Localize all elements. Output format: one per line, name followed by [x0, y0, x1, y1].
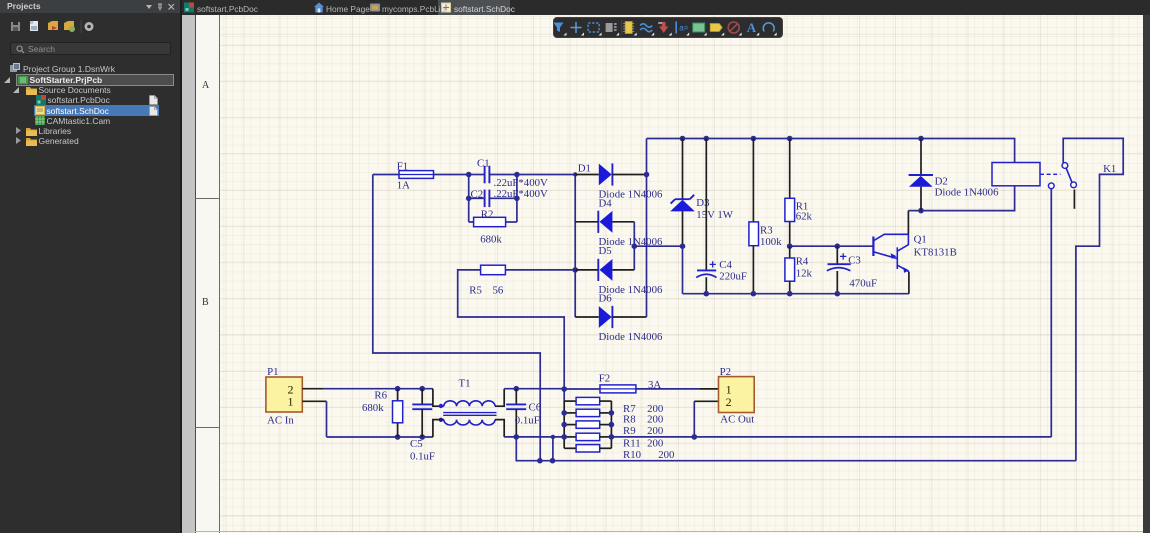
- svg-text:D6: D6: [599, 292, 613, 304]
- junction C5 bottom: [419, 434, 425, 440]
- pin R7 right lead: [600, 400, 612, 402]
- pin C4 bottom stem: [705, 277, 707, 294]
- wire cap bank to D1: [517, 174, 575, 176]
- pin D1 anode: [575, 174, 599, 176]
- pin R6 bottom stem: [397, 423, 399, 437]
- junction C3 top: [835, 243, 841, 249]
- svg-text:R6: R6: [374, 390, 387, 402]
- junction F1 drop: [537, 458, 543, 464]
- svg-text:A: A: [747, 20, 757, 35]
- pin C5 top stem: [421, 389, 423, 405]
- junction D1 cathode bus: [644, 172, 650, 178]
- wire to F2: [564, 388, 600, 390]
- pin D5 anode: [612, 269, 634, 271]
- svg-text:680k: 680k: [362, 402, 384, 414]
- pin R7 left lead: [564, 400, 576, 402]
- resistor R8: [576, 409, 600, 416]
- connector P2: [719, 377, 755, 413]
- svg-text:C5: C5: [410, 438, 423, 450]
- svg-text:0.1uF: 0.1uF: [515, 414, 540, 426]
- pin R3 top stem: [752, 139, 754, 222]
- wire R5 right lead: [505, 269, 575, 271]
- relay coil K1: [992, 163, 1040, 186]
- stack right bus: [610, 401, 612, 448]
- junction D4 D5 anodes: [632, 243, 638, 249]
- junction stack left 412.9: [561, 410, 567, 416]
- pin D4 anode: [612, 221, 634, 223]
- wire T1 to C6 bottom: [504, 436, 564, 438]
- project tree: [0, 62, 180, 64]
- pin C6 bottom stem: [515, 409, 517, 437]
- left Projects panel: [0, 0, 180, 533]
- splitter / gray workspace strip: [180, 0, 182, 533]
- pin P1-2: [302, 388, 324, 390]
- junction rail C4 bottom: [704, 291, 710, 297]
- transformer T1 core: [443, 413, 496, 416]
- pin R11 right lead: [600, 436, 612, 438]
- bottom subtle line: [195, 531, 1143, 532]
- wire K1 left contact drop: [1050, 189, 1052, 437]
- diode D4: [598, 211, 612, 233]
- pin D3 anode stem: [682, 211, 684, 246]
- transformer T1 secondary: [444, 420, 495, 425]
- pin R10 left lead: [564, 447, 576, 449]
- pin T1 secondary left: [433, 420, 444, 437]
- junction D2 bottom: [918, 208, 924, 214]
- svg-text:D5: D5: [599, 245, 612, 257]
- pin R11 left lead: [564, 436, 576, 438]
- floating schematic toolbar: [553, 17, 783, 38]
- junction stack right 412.9: [609, 410, 615, 416]
- pin T1 primary right: [495, 389, 504, 407]
- capacitor C1: [485, 166, 490, 184]
- wire F1 left drop: [373, 175, 540, 461]
- svg-text:C4: C4: [719, 259, 732, 271]
- svg-text:K1: K1: [1103, 163, 1116, 175]
- pin R8 right lead: [600, 412, 612, 414]
- sheet zone band: [196, 15, 220, 533]
- junction rail C4: [704, 136, 710, 142]
- junction rail D2: [918, 136, 924, 142]
- wire base node: [790, 245, 874, 247]
- svg-text:0.1uF: 0.1uF: [410, 450, 435, 462]
- pin D2 cathode stem: [920, 139, 922, 176]
- svg-text:AC Out: AC Out: [720, 414, 754, 426]
- pin R1 bottom stem: [789, 222, 791, 247]
- wire cap bank right vertical: [516, 175, 518, 223]
- transformer T1 primary: [444, 401, 495, 406]
- svg-text:P1: P1: [267, 366, 278, 378]
- resistor R3: [749, 222, 759, 246]
- wire diode block left vertical: [574, 175, 576, 318]
- wire cap bank left vertical: [468, 175, 470, 223]
- panel title bar: [0, 0, 180, 13]
- document tab bar: [182, 0, 1150, 15]
- svg-text:C6: C6: [529, 402, 542, 414]
- pin R1 top stem: [789, 139, 791, 199]
- junction D1 anode: [573, 172, 577, 176]
- wire T1 to C6 top: [504, 388, 564, 390]
- pin P2-1: [700, 388, 719, 390]
- contact pivot top: [1062, 163, 1068, 169]
- svg-text:680k: 680k: [480, 234, 502, 246]
- junction rail R3: [751, 136, 757, 142]
- svg-text:a=: a=: [679, 24, 688, 33]
- wire R11 row drop: [552, 437, 554, 461]
- svg-text:P2: P2: [720, 366, 731, 378]
- junction stack right 424.6: [609, 422, 615, 428]
- svg-text:R4: R4: [796, 256, 809, 268]
- search box: [10, 42, 171, 55]
- svg-text:56: 56: [493, 285, 504, 297]
- svg-text:.22uF*400V: .22uF*400V: [494, 177, 548, 189]
- capacitor C6: [506, 404, 526, 409]
- wire F1 to cap bank: [434, 174, 469, 176]
- pin P2-2: [694, 400, 718, 402]
- junction four way: [561, 386, 567, 392]
- wire R11 row to relay contact: [611, 436, 1051, 438]
- wire R2 left lead: [469, 221, 474, 223]
- wire AC line to F1: [373, 174, 399, 176]
- wire C6 bottom to lower bus: [516, 437, 1076, 461]
- pin C5 bottom stem: [421, 409, 423, 437]
- svg-text:D3: D3: [696, 197, 709, 209]
- junction D3 anode node: [680, 243, 686, 249]
- junction R5 D5 node: [572, 267, 578, 273]
- junction R6 bottom: [395, 434, 401, 440]
- resistor R2: [474, 217, 506, 226]
- junction C6 bottom: [514, 434, 520, 440]
- svg-text:15V 1W: 15V 1W: [696, 209, 733, 221]
- pin R6 top stem: [397, 389, 399, 401]
- capacitor C5: [412, 404, 432, 409]
- svg-text:C1: C1: [477, 158, 490, 170]
- pin C3 top stem: [836, 246, 838, 264]
- pin T1 primary left: [433, 389, 444, 407]
- junction C6 top: [514, 386, 520, 392]
- pin C4 top stem: [705, 139, 707, 271]
- connector P1: [266, 377, 302, 412]
- junction stack right 436.9: [609, 434, 615, 440]
- resistor R5: [481, 265, 506, 275]
- junction rail C3 bottom: [835, 291, 841, 297]
- wire emitter rail: [683, 293, 909, 295]
- right dark edge: [1143, 15, 1150, 533]
- T1 secondary polarity dot: [439, 418, 443, 422]
- wire positive rail: [647, 139, 1015, 163]
- svg-text:1: 1: [288, 395, 294, 409]
- svg-text:1A: 1A: [397, 180, 410, 192]
- stack left bus: [563, 401, 565, 448]
- T1 primary polarity dot: [439, 404, 443, 408]
- junction R11 row drop top: [551, 435, 555, 439]
- resistor R4: [785, 258, 795, 281]
- junction C1 right: [514, 172, 520, 178]
- svg-text:D1: D1: [578, 163, 591, 175]
- wire D4 D5 junction vertical: [633, 222, 635, 270]
- fuse F1: [399, 171, 434, 179]
- svg-text:220uF: 220uF: [719, 271, 747, 283]
- svg-text:Diode 1N4006: Diode 1N4006: [599, 331, 663, 343]
- svg-text:470uF: 470uF: [849, 278, 877, 290]
- wire D1 D6 cathode vertical: [646, 139, 648, 318]
- panel toolbar icons: [0, 18, 110, 36]
- pin D1 cathode: [612, 174, 646, 176]
- svg-text:C2: C2: [471, 188, 484, 200]
- svg-text:2: 2: [726, 395, 732, 409]
- contact pivot right: [1071, 182, 1077, 188]
- pin D5 cathode: [575, 269, 598, 271]
- link coil to contact: [1040, 173, 1061, 175]
- svg-text:200: 200: [647, 425, 663, 437]
- wire C1 right lead: [490, 174, 517, 176]
- resistor R10: [576, 445, 600, 452]
- svg-text:AC In: AC In: [267, 414, 294, 426]
- capacitor C2: [485, 190, 490, 208]
- resistor R9: [576, 421, 600, 428]
- junction rail D3: [680, 136, 686, 142]
- pin P1-1: [302, 400, 326, 402]
- junction P2 pin2 drop: [692, 434, 698, 440]
- resistor R11: [576, 433, 600, 440]
- svg-text:Diode 1N4006: Diode 1N4006: [935, 186, 999, 198]
- pin D6 anode: [575, 316, 599, 318]
- pin Q1 emitter: [908, 272, 910, 294]
- wire rectifier minus to D3: [634, 245, 682, 247]
- pin C3 bottom stem: [836, 271, 838, 294]
- capacitor C4: [696, 261, 716, 277]
- pin C6 top stem: [515, 389, 517, 405]
- gray workspace strip left of sheet: [182, 15, 196, 533]
- wire C1 left lead: [469, 174, 485, 176]
- contact pivot left: [1048, 183, 1054, 189]
- svg-text:200: 200: [647, 437, 663, 449]
- pin R9 left lead: [564, 424, 576, 426]
- svg-text:R2: R2: [481, 209, 494, 221]
- pin R10 right lead: [600, 447, 612, 449]
- capacitor C3: [827, 253, 851, 271]
- svg-text:R5: R5: [469, 285, 482, 297]
- svg-text:R8: R8: [623, 414, 636, 426]
- svg-text:62k: 62k: [796, 211, 813, 223]
- svg-text:R11: R11: [623, 437, 641, 449]
- pin Q1 collector: [907, 211, 909, 235]
- junction C2 right: [514, 196, 520, 202]
- wire R5 left loop: [458, 270, 565, 389]
- junction R1 R4 base: [787, 243, 793, 249]
- wire C2 left lead: [469, 197, 485, 199]
- pin D3 cathode stem: [682, 139, 684, 199]
- resistor R1: [785, 198, 795, 221]
- svg-text:F1: F1: [397, 161, 408, 173]
- junction rail R3 bottom: [751, 291, 757, 297]
- pin D6 cathode: [612, 316, 646, 318]
- junction C5 top: [419, 386, 425, 392]
- resistor R6: [393, 401, 403, 423]
- svg-text:R9: R9: [623, 425, 636, 437]
- pin D2 anode stem: [920, 187, 922, 211]
- diode D5: [598, 259, 612, 281]
- wire stack feed: [563, 389, 565, 401]
- svg-text:T1: T1: [459, 377, 471, 389]
- pin T1 secondary right: [495, 420, 504, 437]
- svg-text:C3: C3: [848, 255, 861, 267]
- wire P2 pin2 drop: [693, 401, 695, 437]
- wire filter top: [324, 388, 433, 390]
- zone letter A: [202, 80, 209, 91]
- zone divider lines: [195, 198, 219, 199]
- wire C2 right lead: [490, 197, 517, 199]
- pin D4 cathode: [575, 221, 598, 223]
- contact stub: [1073, 190, 1075, 209]
- diode D2: [909, 175, 933, 187]
- pin R9 right lead: [600, 424, 612, 426]
- svg-text:200: 200: [658, 449, 674, 461]
- wire D3 to bottom rail: [682, 246, 684, 294]
- junction C1 left: [466, 172, 472, 178]
- junction C2 left: [466, 196, 472, 202]
- svg-text:12k: 12k: [796, 268, 813, 280]
- pin R4 bottom stem: [789, 281, 791, 294]
- wire P1-1 drop: [326, 401, 328, 437]
- wire relay coil bottom: [908, 186, 1014, 211]
- svg-text:Q1: Q1: [914, 234, 927, 246]
- junction rail R4 bottom: [787, 291, 793, 297]
- svg-text:F2: F2: [599, 372, 610, 384]
- svg-text:R3: R3: [760, 225, 773, 237]
- zener diode D3: [670, 195, 695, 212]
- junction R11 drop: [550, 458, 556, 464]
- fuse F2: [600, 385, 636, 393]
- junction stack left 436.9: [561, 434, 567, 440]
- contact blade: [1066, 168, 1072, 182]
- svg-text:100k: 100k: [760, 236, 782, 248]
- junction rail R1: [787, 136, 793, 142]
- resistor R7: [576, 397, 600, 404]
- transistor Q1: [873, 234, 909, 273]
- wire filter bottom: [327, 436, 433, 438]
- zone letter B: [202, 297, 209, 308]
- svg-text:200: 200: [647, 414, 663, 426]
- diode D1: [599, 163, 613, 185]
- svg-text:R10: R10: [623, 449, 641, 461]
- pin R8 left lead: [564, 412, 576, 414]
- wire K1 top frame: [1063, 138, 1123, 460]
- junction R6 top: [395, 386, 401, 392]
- grid area: [220, 15, 1143, 533]
- pin R3 bottom stem: [752, 246, 754, 294]
- wire R2 right lead: [506, 221, 517, 223]
- svg-text:D4: D4: [599, 197, 613, 209]
- wire F2 to P2: [636, 388, 700, 390]
- svg-text:.22uF*400V: .22uF*400V: [494, 188, 548, 200]
- diode D6: [599, 306, 613, 328]
- pin R4 top stem: [789, 246, 791, 258]
- svg-text:KT8131B: KT8131B: [914, 246, 957, 258]
- junction stack left 424.6: [561, 422, 567, 428]
